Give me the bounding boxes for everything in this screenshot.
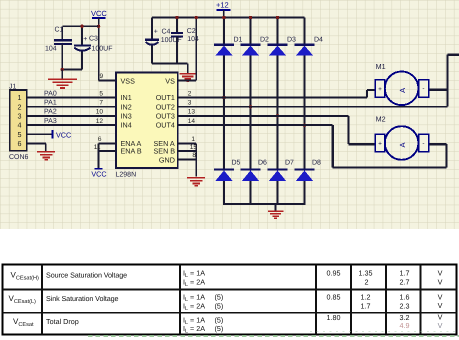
svg-text:PA3: PA3 xyxy=(44,118,57,125)
svg-text:4.9: 4.9 xyxy=(400,321,410,330)
svg-text:OUT2: OUT2 xyxy=(156,102,175,111)
svg-text:12: 12 xyxy=(96,118,104,125)
svg-text:2: 2 xyxy=(18,102,22,111)
svg-text:D6: D6 xyxy=(258,159,267,166)
svg-text:D8: D8 xyxy=(312,159,321,166)
svg-text:100UF: 100UF xyxy=(92,46,113,53)
svg-text:3: 3 xyxy=(18,112,22,121)
svg-text:(5): (5) xyxy=(215,301,224,310)
svg-text:L298N: L298N xyxy=(116,172,137,179)
svg-text:IN4: IN4 xyxy=(121,121,132,130)
svg-text:104: 104 xyxy=(45,46,57,53)
svg-text:D3: D3 xyxy=(287,37,296,44)
svg-text:C3: C3 xyxy=(89,36,98,43)
svg-text:2: 2 xyxy=(365,278,369,287)
svg-text:13: 13 xyxy=(188,109,196,116)
svg-text:1.6: 1.6 xyxy=(400,293,410,302)
svg-text:PA2: PA2 xyxy=(44,109,57,116)
svg-text:100UF: 100UF xyxy=(161,37,182,44)
svg-text:Sink Saturation Voltage: Sink Saturation Voltage xyxy=(46,294,119,303)
svg-text:0.85: 0.85 xyxy=(327,293,341,302)
svg-text:IN1: IN1 xyxy=(121,93,132,102)
svg-text:VS: VS xyxy=(165,76,175,85)
svg-text:+: + xyxy=(378,141,382,148)
svg-text:V: V xyxy=(438,321,443,330)
svg-text:1.35: 1.35 xyxy=(359,269,373,278)
svg-text:VCC: VCC xyxy=(56,130,71,139)
svg-text:V: V xyxy=(438,301,443,310)
svg-text:ENA B: ENA B xyxy=(121,147,142,156)
svg-text:A: A xyxy=(398,142,407,147)
svg-text:M2: M2 xyxy=(376,115,386,124)
svg-text:1.7: 1.7 xyxy=(400,269,410,278)
svg-text:(5): (5) xyxy=(215,324,224,333)
svg-text:D5: D5 xyxy=(232,159,241,166)
svg-text:PA1: PA1 xyxy=(44,100,57,107)
svg-text:V: V xyxy=(438,292,443,301)
svg-text:2.7: 2.7 xyxy=(400,278,410,287)
svg-text:+: + xyxy=(83,36,87,43)
svg-text:C1: C1 xyxy=(55,27,64,34)
svg-text:J1: J1 xyxy=(9,84,17,91)
svg-text:C4: C4 xyxy=(162,28,171,35)
svg-text:10: 10 xyxy=(96,109,104,116)
svg-text:2.3: 2.3 xyxy=(400,301,410,310)
svg-text:Total Drop: Total Drop xyxy=(46,317,79,326)
svg-text:V: V xyxy=(438,268,443,277)
svg-text:+: + xyxy=(154,29,158,36)
svg-text:PA0: PA0 xyxy=(44,90,57,97)
svg-text:5: 5 xyxy=(99,90,103,97)
svg-text:A: A xyxy=(398,88,407,93)
svg-text:2: 2 xyxy=(188,90,192,97)
svg-text:4: 4 xyxy=(18,121,22,130)
svg-text:3: 3 xyxy=(188,100,192,107)
svg-text:OUT1: OUT1 xyxy=(156,93,175,102)
svg-text:1.7: 1.7 xyxy=(361,301,371,310)
svg-text:VSS: VSS xyxy=(121,76,136,85)
svg-text:9: 9 xyxy=(100,73,104,80)
svg-text:1: 1 xyxy=(18,93,22,102)
svg-text:C2: C2 xyxy=(187,28,196,35)
svg-text:+: + xyxy=(378,86,382,93)
svg-text:D7: D7 xyxy=(285,159,294,166)
svg-text:-: - xyxy=(422,140,424,147)
svg-text:CON6: CON6 xyxy=(9,154,29,161)
svg-text:Source Saturation Voltage: Source Saturation Voltage xyxy=(46,270,127,279)
svg-text:IN2: IN2 xyxy=(121,102,132,111)
svg-text:-: - xyxy=(422,86,424,93)
svg-text:(5): (5) xyxy=(215,293,224,302)
svg-text:D4: D4 xyxy=(314,37,323,44)
svg-text:6: 6 xyxy=(98,136,102,143)
svg-text:6: 6 xyxy=(18,139,22,148)
svg-text:0.95: 0.95 xyxy=(327,269,341,278)
svg-text:1: 1 xyxy=(191,136,195,143)
svg-text:M1: M1 xyxy=(376,62,386,71)
svg-text:OUT3: OUT3 xyxy=(156,112,175,121)
svg-text:D1: D1 xyxy=(234,37,243,44)
svg-text:IN3: IN3 xyxy=(121,112,132,121)
svg-text:OUT4: OUT4 xyxy=(156,121,175,130)
svg-text:1.2: 1.2 xyxy=(361,293,371,302)
svg-text:VCC: VCC xyxy=(91,169,106,178)
svg-text:VCC: VCC xyxy=(91,9,107,18)
svg-text:1.80: 1.80 xyxy=(327,313,341,322)
svg-text:8: 8 xyxy=(192,152,196,159)
svg-text:7: 7 xyxy=(99,100,103,107)
svg-text:14: 14 xyxy=(188,118,196,125)
svg-text:SEN B: SEN B xyxy=(154,147,176,156)
svg-text:15: 15 xyxy=(190,144,198,151)
svg-text:+12: +12 xyxy=(216,1,229,10)
svg-text:D2: D2 xyxy=(260,37,269,44)
svg-text:V: V xyxy=(438,277,443,286)
svg-text:GND: GND xyxy=(159,155,175,164)
svg-text:5: 5 xyxy=(18,130,22,139)
svg-text:104: 104 xyxy=(187,36,199,43)
svg-text:11: 11 xyxy=(94,144,101,151)
